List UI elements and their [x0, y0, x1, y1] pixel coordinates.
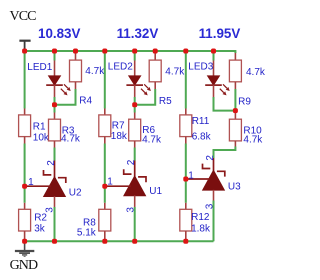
- PUT U1: [105, 161, 146, 208]
- svg-text:4.7k: 4.7k: [61, 133, 81, 144]
- resistor R1 10k: [19, 109, 31, 144]
- resistor R2 3k: [19, 203, 31, 242]
- svg-text:4.7k: 4.7k: [142, 135, 162, 146]
- svg-text:R5: R5: [159, 96, 172, 107]
- wire: node A3 to R10: [234, 111, 236, 113]
- wire: R5 elbow to node A2: [135, 89, 156, 105]
- svg-text:R11: R11: [192, 116, 210, 127]
- wire: left column mid (R1 to gate node): [24, 144, 26, 187]
- wire: top VCC rail: [25, 50, 236, 52]
- resistor R11 6.8k: [180, 109, 192, 144]
- LED3: [205, 52, 230, 97]
- wire: node A1 to R3: [54, 105, 56, 113]
- svg-text:2: 2: [126, 159, 137, 165]
- junction dots on bottom rail: [22, 239, 27, 244]
- svg-text:LED2: LED2: [108, 61, 133, 72]
- svg-text:2: 2: [46, 160, 57, 166]
- svg-text:2: 2: [205, 155, 216, 161]
- wire: U2 pin3 to GND rail: [54, 207, 56, 241]
- wire: column 3 mid (R11 to gate node): [185, 144, 187, 180]
- node A1: [52, 102, 57, 107]
- svg-text:10.83V: 10.83V: [38, 26, 81, 41]
- svg-text:GND: GND: [10, 258, 38, 273]
- wire: left column lower (gate node to R2): [24, 186, 26, 203]
- svg-text:11.95V: 11.95V: [199, 26, 241, 41]
- ground symbol: [15, 241, 34, 256]
- wire: column 3 upper (rail to R11): [185, 52, 187, 109]
- resistor R5 4.7k: [149, 52, 161, 89]
- wire: R9 to node A3: [234, 89, 236, 111]
- resistor R3 4.7k: [49, 113, 61, 148]
- resistor R4 4.7k: [70, 52, 82, 89]
- PUT U3: [186, 158, 225, 201]
- svg-text:18k: 18k: [111, 131, 128, 142]
- svg-text:11.32V: 11.32V: [117, 26, 159, 41]
- PUT U2: [25, 161, 66, 208]
- svg-text:U1: U1: [149, 186, 162, 197]
- wire: R3 to U2 pin 2: [54, 148, 56, 161]
- svg-text:4.7k: 4.7k: [165, 66, 185, 77]
- node A3: [233, 108, 238, 113]
- svg-text:4.7k: 4.7k: [243, 134, 263, 145]
- resistor R10 4.7k: [229, 113, 241, 147]
- resistor R6 4.7k: [129, 113, 141, 148]
- resistor R9 4.7k: [229, 52, 241, 89]
- wire: bottom GND rail: [25, 240, 214, 242]
- wire: U1 pin3 to GND rail: [134, 207, 136, 241]
- wire: U3 pin3 to GND rail: [213, 201, 215, 242]
- wire: column 2 upper (rail to R7): [104, 52, 106, 109]
- svg-text:5.1k: 5.1k: [77, 227, 97, 238]
- wire: R4 elbow to node A1: [55, 89, 76, 105]
- svg-text:U3: U3: [228, 182, 241, 193]
- wire: LED1 to node A1: [54, 97, 56, 105]
- svg-text:R1: R1: [33, 122, 46, 133]
- svg-text:1: 1: [188, 170, 194, 181]
- svg-text:4.7k: 4.7k: [246, 67, 266, 78]
- wire: R6 to U1 pin 2: [134, 148, 136, 161]
- wire: node A2 to R6: [134, 105, 136, 113]
- svg-text:4.7k: 4.7k: [85, 66, 105, 77]
- wire: LED3 elbow to node A3: [214, 97, 236, 111]
- svg-text:R2: R2: [34, 212, 47, 223]
- LED1: [46, 52, 70, 97]
- svg-text:U2: U2: [69, 188, 82, 199]
- wire: R10 elbow to U3 pin 2: [214, 147, 236, 159]
- svg-text:10k: 10k: [33, 132, 50, 143]
- node B1 (gate): [22, 184, 27, 189]
- node B3 (gate): [183, 177, 188, 182]
- wire: LED2 to node A2: [134, 97, 136, 105]
- resistor R8 5.1k: [99, 203, 111, 242]
- wire: column 2 lower (gate node to R8): [104, 186, 106, 203]
- svg-text:1: 1: [107, 177, 113, 188]
- svg-text:VCC: VCC: [10, 9, 37, 24]
- svg-text:1.8k: 1.8k: [191, 223, 211, 234]
- LED2: [126, 52, 150, 97]
- svg-text:LED1: LED1: [27, 62, 52, 73]
- wire: left column upper (VCC to R1): [24, 52, 26, 109]
- svg-text:6.8k: 6.8k: [192, 131, 212, 142]
- svg-text:R12: R12: [191, 212, 210, 223]
- svg-text:R9: R9: [238, 97, 251, 108]
- wire: column 2 mid (R7 to gate node): [104, 144, 106, 187]
- wire: top rail corner down to R9: [234, 50, 236, 53]
- svg-text:3k: 3k: [34, 223, 46, 234]
- node B2 (gate): [102, 184, 107, 189]
- resistor R12 1.8k: [180, 203, 192, 242]
- svg-text:R4: R4: [79, 95, 92, 106]
- svg-text:LED3: LED3: [188, 62, 213, 73]
- VCC power symbol: [19, 41, 30, 51]
- svg-text:1: 1: [28, 177, 34, 188]
- node A2: [132, 102, 137, 107]
- junction dots on top rail: [22, 49, 27, 54]
- wire: column 3 lower (gate node to R12): [185, 179, 187, 203]
- resistor R7 18k: [99, 109, 111, 144]
